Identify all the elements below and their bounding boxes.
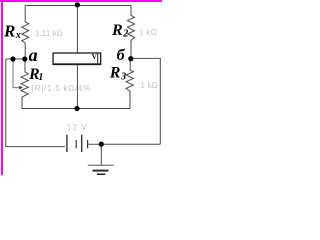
svg-text:12 V: 12 V xyxy=(67,123,88,132)
svg-text:R: R xyxy=(111,22,123,39)
svg-text:1 kΩ: 1 kΩ xyxy=(141,81,158,90)
svg-text:2: 2 xyxy=(122,29,128,40)
svg-text:R: R xyxy=(3,21,15,40)
svg-text:a: a xyxy=(29,45,38,65)
svg-text:R: R xyxy=(109,65,121,82)
svg-text:x: x xyxy=(15,30,21,41)
svg-text:[R]/1.5 kΩ/4%: [R]/1.5 kΩ/4% xyxy=(32,84,91,93)
svg-text:1 kΩ: 1 kΩ xyxy=(139,28,157,37)
svg-text:1: 1 xyxy=(38,72,43,83)
svg-text:1.11 kΩ: 1.11 kΩ xyxy=(35,29,63,38)
svg-text:3: 3 xyxy=(120,71,126,82)
svg-text:б: б xyxy=(117,47,126,64)
svg-text:V: V xyxy=(92,53,97,61)
